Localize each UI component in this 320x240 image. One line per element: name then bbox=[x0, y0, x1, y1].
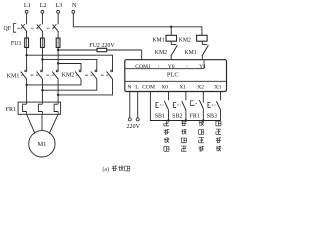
node SB1-COM bus bbox=[167, 119, 169, 121]
annotation text: reverse button bbox=[181, 121, 186, 126]
wire NC to Y1 bbox=[201, 56, 203, 60]
fuse FU1 pole 2 bbox=[41, 38, 45, 48]
fuse FU1 pole 3 bbox=[56, 38, 60, 48]
svg-text:220V: 220V bbox=[126, 123, 140, 130]
svg-text:KM2: KM2 bbox=[179, 37, 191, 43]
node rejoin 3 bbox=[57, 94, 59, 96]
svg-text:X2: X2 bbox=[197, 84, 204, 90]
breaker QF pole 3 bbox=[53, 25, 59, 32]
contactor main contact KM1 pole 2 bbox=[41, 70, 43, 72]
FR1 heater element 3 bbox=[54, 104, 58, 111]
wire L3 to QF bbox=[57, 13, 59, 24]
pushbutton SB3 bbox=[220, 92, 222, 101]
breaker QF pole 2 bbox=[37, 25, 43, 32]
pushbutton SB2 bbox=[185, 92, 187, 101]
220V terminal 2 bbox=[136, 118, 139, 121]
svg-text:Y0: Y0 bbox=[168, 64, 175, 70]
svg-text:PLC: PLC bbox=[167, 72, 179, 79]
fuse FU1 pole 1 bbox=[25, 38, 29, 48]
wire N to coil bus bbox=[73, 13, 202, 35]
wire L2 to QF bbox=[41, 13, 43, 24]
terminal L1 bbox=[25, 10, 28, 13]
PLC input terminal strip bbox=[125, 80, 227, 82]
wire N to 220V source bbox=[129, 92, 131, 118]
svg-text:(a): (a) bbox=[102, 166, 109, 173]
QF mechanical link dashed bbox=[17, 27, 20, 29]
wire KM1 pole 2 to FR1 bbox=[41, 79, 43, 102]
thermal NC contact FR1 contact bbox=[202, 92, 204, 103]
svg-text:N: N bbox=[72, 2, 77, 9]
coil KM1 bbox=[166, 35, 177, 41]
FR1 heater element 1 bbox=[23, 104, 27, 111]
svg-text:N: N bbox=[127, 84, 131, 90]
wire NC to Y0 bbox=[170, 56, 172, 60]
coil KM2 bbox=[197, 35, 208, 41]
svg-text:SB1: SB1 bbox=[155, 113, 165, 119]
contactor main contact KM1 pole 3 bbox=[56, 70, 58, 72]
svg-text:KM1: KM1 bbox=[7, 73, 20, 79]
svg-text:KM2: KM2 bbox=[62, 73, 75, 79]
svg-text:Y1: Y1 bbox=[199, 64, 206, 70]
wire L1 to QF bbox=[26, 13, 28, 24]
PLC output terminal strip bbox=[125, 68, 204, 70]
wire L3 to KM2 pole1 bbox=[58, 64, 81, 71]
node rejoin 2 bbox=[41, 89, 43, 91]
PLC box bbox=[125, 60, 227, 92]
svg-text:KM1: KM1 bbox=[184, 50, 196, 56]
interlock NC contact KM2 (on Y0) bbox=[171, 44, 176, 46]
fuse FU2 bbox=[97, 48, 107, 51]
wire L to 220V source bbox=[137, 92, 139, 118]
wire KM2 pole3 rejoin L3 bbox=[58, 79, 112, 95]
svg-text:COM: COM bbox=[142, 84, 155, 90]
contactor main contact KM2 pole 3 bbox=[111, 70, 113, 72]
svg-text:FR1: FR1 bbox=[190, 113, 200, 119]
svg-text:X1: X1 bbox=[179, 84, 186, 90]
pushbutton SB1 bbox=[168, 92, 170, 101]
wire FU1 out pole 3 bbox=[57, 48, 59, 71]
svg-text:FR1: FR1 bbox=[6, 107, 16, 113]
QF bracket bbox=[13, 24, 16, 33]
svg-text:COM1: COM1 bbox=[135, 64, 151, 70]
wire FR1 to motor bbox=[27, 114, 35, 133]
svg-text:SB2: SB2 bbox=[172, 113, 182, 119]
node rejoin 1 bbox=[25, 84, 27, 86]
wire bus to KM1 coil bbox=[170, 27, 172, 36]
svg-text:M1: M1 bbox=[37, 141, 46, 148]
svg-text:L: L bbox=[135, 84, 139, 90]
wire KM2 coil to NC bbox=[201, 41, 203, 44]
svg-text:L2: L2 bbox=[40, 2, 47, 9]
svg-text:QF: QF bbox=[3, 26, 11, 32]
node L1 tap bbox=[25, 54, 27, 56]
svg-text:SB3: SB3 bbox=[207, 113, 217, 119]
annotation text: forward button bbox=[164, 121, 169, 126]
contactor main contact KM2 pole 2 bbox=[95, 70, 97, 72]
terminal N bbox=[72, 10, 75, 13]
svg-text:X3: X3 bbox=[214, 84, 221, 90]
wire KM2 pole2 rejoin L2 bbox=[42, 79, 96, 90]
wire L3 to FU2 bbox=[58, 49, 97, 51]
svg-text:L3: L3 bbox=[55, 2, 62, 9]
wire QF to FU1 pole 2 bbox=[41, 32, 43, 38]
wire FU2 to COM1 bbox=[107, 49, 142, 51]
annotation text: stop button bbox=[216, 121, 221, 126]
KM2 link dashed bbox=[76, 74, 78, 76]
wire COM bus bbox=[150, 92, 220, 121]
motor M1 bbox=[29, 131, 55, 157]
contactor main contact KM2 pole 1 bbox=[79, 70, 81, 72]
node L2 tap bbox=[41, 58, 43, 60]
svg-text:L1: L1 bbox=[24, 2, 31, 9]
220V terminal 1 bbox=[128, 118, 131, 121]
wire KM1 pole 1 to FR1 bbox=[26, 79, 28, 102]
thermal relay FR1 box bbox=[18, 102, 61, 114]
wire FU1 out pole 2 bbox=[41, 48, 43, 71]
wire KM1 pole 3 to FR1 bbox=[57, 79, 59, 102]
wire KM1 coil to NC bbox=[170, 41, 172, 44]
node FR1-COM bus bbox=[202, 119, 204, 121]
wire L1 to KM2 pole3 bbox=[27, 55, 113, 70]
KM1 link dashed bbox=[21, 74, 24, 76]
interlock NC contact KM1 (on Y1) bbox=[202, 44, 207, 46]
wire QF to FU1 pole 3 bbox=[57, 32, 59, 38]
svg-text:KM1: KM1 bbox=[152, 37, 164, 43]
svg-text:KM2: KM2 bbox=[155, 50, 167, 56]
terminal L3 bbox=[57, 10, 60, 13]
svg-text:X0: X0 bbox=[161, 84, 168, 90]
FR1 heater element 2 bbox=[38, 104, 42, 111]
node coil bus bbox=[170, 26, 172, 28]
wire QF to FU1 pole 1 bbox=[26, 32, 28, 38]
terminal L2 bbox=[41, 10, 44, 13]
annotation text: overload protect bbox=[199, 121, 204, 126]
svg-text:FU1: FU1 bbox=[11, 41, 22, 47]
wire L2 to KM2 pole2 bbox=[42, 59, 96, 70]
contactor main contact KM1 pole 1 bbox=[25, 70, 27, 72]
wire FU1 out pole 1 bbox=[26, 48, 28, 71]
breaker QF pole 1 bbox=[21, 25, 27, 32]
wire KM2 pole1 rejoin L1 bbox=[27, 79, 81, 85]
node SB2-COM bus bbox=[185, 119, 187, 121]
node L3 tap2 bbox=[57, 62, 59, 64]
node L3 tap for FU2 bbox=[57, 49, 59, 51]
